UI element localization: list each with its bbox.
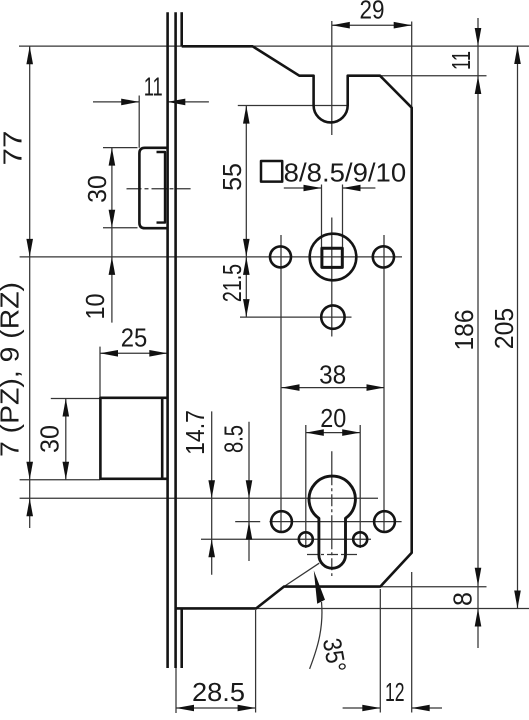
35deg slant extension thin (284, 563, 319, 586)
centerline notch horizontal y=105.5 (238, 105, 348, 107)
arrow 10 up (109, 257, 116, 275)
svg-text:12: 12 (385, 677, 405, 707)
hole small left (299, 532, 313, 546)
arrow 186 down (475, 568, 482, 586)
arrow 55 down (243, 239, 250, 257)
arrow 14.7 down (208, 480, 215, 498)
arrow 20 left (306, 429, 324, 436)
svg-text:14.7: 14.7 (180, 410, 210, 455)
centerline left holes column x=281 (280, 235, 282, 532)
arrow 11 left right-point (121, 99, 139, 106)
hole big left (271, 511, 292, 532)
svg-text:205: 205 (489, 308, 519, 350)
arrow 8R up (475, 609, 482, 627)
arrow 205 up (514, 46, 521, 64)
svg-text:186: 186 (449, 310, 479, 351)
arrow 77 down (26, 239, 33, 257)
svg-text:8.5: 8.5 (219, 425, 249, 453)
dim line 25 (100, 352, 167, 354)
arrow 7/9 down (26, 462, 33, 480)
latch bolt (139, 148, 166, 228)
extension line latch bottom left (103, 227, 138, 229)
hole big right (374, 511, 395, 532)
extension line bottom mid level y=586.7 (380, 586, 486, 588)
arrow 7/9 up (26, 498, 33, 516)
centerline small hole right x=360.2 (359, 425, 361, 548)
arrow 38 right (367, 384, 385, 391)
extension line latch face x=138 (138, 96, 140, 148)
dim line 77 and 7/9 (29, 46, 31, 528)
arrow 28.5 right (238, 705, 256, 712)
dim line 55 and 21.5 (245, 106, 247, 318)
dim line 11 left (93, 101, 139, 103)
extension line top edge level y=46 (19, 45, 529, 47)
centerline right holes column x=384 (383, 235, 385, 532)
centerline lower hole row y=317.1 (240, 316, 352, 318)
svg-text:25: 25 (121, 323, 148, 353)
arrow 30 deadbolt up (63, 399, 70, 417)
extension line right wall above x=411.7 (411, 22, 413, 108)
arrow 21.5 up (243, 257, 250, 275)
extension line deadbolt face x=100 (99, 347, 101, 399)
dim line 8 square (284, 187, 322, 189)
arrow 29 left (332, 22, 350, 29)
centerline small holes row y=539.3 (201, 538, 371, 540)
arrow 77 up (26, 46, 33, 64)
arrow 29 right (394, 22, 412, 29)
dim line 14.7 (211, 411, 213, 574)
arrow 20 right (342, 429, 360, 436)
svg-text:10: 10 (80, 294, 110, 320)
arrow 21.5 down (243, 299, 250, 317)
svg-text:21.5: 21.5 (217, 264, 247, 302)
extension line right wall below x=411.7 (411, 572, 413, 713)
35deg leader arc (310, 602, 322, 669)
arrow 8sq right-point (304, 185, 322, 192)
svg-text:8/8.5/9/10: 8/8.5/9/10 (284, 158, 407, 188)
extension line 35deg corner x=255.6 (255, 610, 257, 713)
arrow 30 deadbolt down (63, 462, 70, 480)
hub square (322, 248, 342, 267)
extension line bottom chamfer x=380.3 (379, 589, 381, 713)
arrow 12 right-point (362, 705, 380, 712)
hub circle (310, 234, 357, 281)
latch centerline dash-dot (127, 188, 191, 190)
svg-text:11: 11 (446, 51, 476, 70)
extension line notch shoulder level y=75.8 right side (380, 75, 487, 77)
arrow 11R down (475, 28, 482, 46)
dim line 205 (517, 46, 519, 609)
svg-text:28.5: 28.5 (192, 677, 245, 707)
latch bevel edge (157, 152, 166, 223)
svg-text:11: 11 (144, 72, 163, 102)
arrow 14.7 up (208, 539, 215, 557)
svg-text:8: 8 (448, 592, 478, 606)
svg-text:7 (PZ), 9 (RZ): 7 (PZ), 9 (RZ) (0, 282, 25, 457)
hole below hub (321, 305, 344, 328)
svg-text:30: 30 (82, 175, 112, 203)
main vertical centerline segment hub (331, 218, 333, 337)
dim line 8.5 (248, 422, 250, 561)
dim line 28.5 (176, 707, 256, 709)
arrow 8.5 down (246, 480, 253, 498)
svg-text:35°: 35° (317, 636, 352, 675)
arrow 12 left-point (412, 705, 430, 712)
main vertical centerline segment cylinder (331, 451, 333, 576)
arrow 30 latch up (109, 148, 116, 166)
svg-text:29: 29 (360, 0, 385, 25)
arrow 35deg leader (314, 571, 325, 604)
dim line 38 (282, 387, 385, 389)
arrow 11 left left-point (167, 99, 185, 106)
dim line 20 (306, 432, 360, 434)
hole upper left (270, 246, 291, 267)
extension line faceplate back below x=176 (175, 668, 177, 713)
deadbolt (100, 398, 166, 479)
square symbol of 8/8.5/9/10 label (261, 161, 282, 182)
case wall top stub (180, 12, 183, 46)
centerline big holes row y=521.6 (235, 521, 260, 523)
arrow 8.5 up (246, 522, 253, 540)
extension line hub square right x=342.5 (342, 185, 344, 249)
arrow 30 latch down shared 10 (109, 210, 116, 228)
arrow 8sq left-point (343, 185, 361, 192)
arrow 25 left (100, 350, 118, 357)
svg-text:30: 30 (34, 425, 64, 453)
cylinder profile (309, 476, 355, 568)
svg-text:38: 38 (319, 360, 346, 390)
centerline cylinder row y=498.3 (20, 497, 378, 499)
hole upper right (373, 246, 394, 267)
svg-text:77: 77 (0, 131, 28, 166)
dim line 30 latch and 10 (111, 148, 113, 323)
case outline (176, 46, 412, 608)
extension line hub square left x=321.5 (321, 185, 323, 249)
extension line deadbolt top left (51, 398, 100, 400)
dim line 12 (343, 707, 381, 709)
svg-text:55: 55 (217, 163, 247, 191)
case wall bottom stub (180, 608, 183, 668)
arrow 205 down (514, 591, 521, 609)
dim line 30 deadbolt (65, 399, 67, 480)
extension line bottom edge level y=608.5 (256, 608, 529, 610)
centerline cylinder stem bottom (307, 554, 357, 556)
arrow 28.5 left (176, 705, 194, 712)
dim line 11 right 186 and 8 (477, 18, 479, 648)
arrow 25 right (149, 350, 167, 357)
centerline small hole left x=305.8 (305, 425, 307, 548)
hole small right (353, 532, 367, 546)
extension line latch top left (103, 147, 138, 149)
arrow 55 up (243, 106, 250, 124)
faceplate back line (174, 12, 177, 668)
extension line deadbolt bottom left (20, 479, 100, 481)
centerline hub row y=256.9 (20, 256, 402, 258)
main vertical centerline segment top (331, 21, 333, 135)
arrow 38 left (282, 384, 300, 391)
svg-text:20: 20 (320, 403, 346, 433)
arrow 11R/186 up (475, 76, 482, 94)
faceplate front line (166, 12, 169, 668)
deadbolt bevel edge (161, 398, 164, 479)
dim line 29 (332, 24, 412, 26)
